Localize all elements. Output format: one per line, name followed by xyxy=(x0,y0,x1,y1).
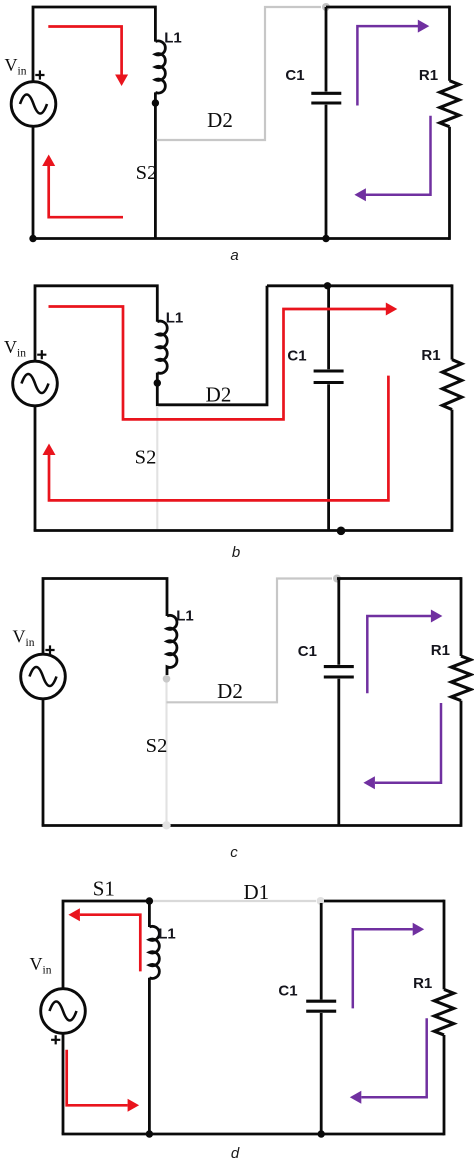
inductor L1, circuit b xyxy=(157,321,167,373)
wire: bottom rail, circuit a xyxy=(32,237,450,240)
capacitor C1 bottom lead, circuit d xyxy=(320,1013,323,1134)
node: bottom junction, circuit b xyxy=(337,527,346,536)
svg-text:S2: S2 xyxy=(135,447,157,469)
inductor L1, circuit a xyxy=(155,41,165,93)
node: L1 junction (grey), circuit c xyxy=(163,675,171,683)
current arrow: output loop bottom (purple), circuit c xyxy=(375,703,441,783)
wire: bottom rail, circuit d xyxy=(62,1133,444,1136)
wire: right rail top, circuit b xyxy=(451,284,454,359)
node: C1 bottom junction, circuit d xyxy=(318,1130,325,1137)
wire: switch S2 branch (closed, black), circuit a xyxy=(154,92,157,238)
source Vin (AC), circuit a xyxy=(11,82,56,127)
current arrow: output loop bottom (purple), circuit d xyxy=(361,1018,426,1097)
wire: top-right rail, circuit a xyxy=(326,6,450,9)
resistor R1, circuit c xyxy=(451,656,470,701)
capacitor C1 bottom lead, circuit c xyxy=(337,679,340,826)
resistor R1, circuit b xyxy=(442,360,461,410)
wire: top-left loop (Vin top to L1 top), circuit c xyxy=(43,579,167,655)
switch S2 branch (open, faint grey), circuit c xyxy=(165,681,167,824)
switch S2 branch (open, faint grey), circuit b xyxy=(156,406,158,529)
resistor R1, circuit d xyxy=(434,989,453,1035)
svg-text:c: c xyxy=(230,844,238,861)
capacitor C1 bottom lead, circuit a xyxy=(325,105,328,239)
capacitor C1 top lead, circuit d xyxy=(320,903,323,1000)
wire: right rail bottom, circuit b xyxy=(451,410,454,532)
wire: right rail bottom, circuit c xyxy=(460,701,463,827)
svg-text:C1: C1 xyxy=(278,983,297,1000)
node: bottom-left, circuit a xyxy=(29,235,36,242)
current arrow: output loop top (purple), circuit a xyxy=(357,26,418,105)
wire: L1 bottom lead, circuit d xyxy=(148,978,151,1134)
wire: top-right rail, circuit c xyxy=(337,577,461,580)
wire: bottom rail, circuit b xyxy=(34,529,452,532)
svg-text:S2: S2 xyxy=(136,162,158,184)
current arrow: output loop bottom (purple), circuit a xyxy=(365,116,430,195)
wire: right rail bottom, circuit a xyxy=(448,127,451,240)
svg-text:R1: R1 xyxy=(413,975,432,992)
capacitor C1 plates, circuit c xyxy=(324,667,354,677)
svg-text:L1: L1 xyxy=(166,310,184,327)
current arrow: input loop top (red), circuit d xyxy=(80,915,140,972)
wire: top-left loop (Vin top to L1 top), circuit a xyxy=(33,7,155,82)
svg-text:a: a xyxy=(230,247,238,264)
current arrow: input loop bottom (red), circuit d xyxy=(67,1050,128,1106)
diode D2 branch (inactive grey), circuit c xyxy=(167,579,333,703)
wire: Vin bottom lead, circuit a xyxy=(32,127,35,239)
svg-text:L1: L1 xyxy=(164,30,182,47)
wire: bottom rail, circuit c xyxy=(42,824,461,827)
svg-text:D2: D2 xyxy=(217,679,243,703)
svg-text:d: d xyxy=(231,1145,240,1161)
diode D2 branch (inactive grey), circuit a xyxy=(157,7,322,140)
wire: top-right rail, circuit d xyxy=(324,900,444,903)
wire: top-right rail, circuit b xyxy=(267,284,452,287)
wire: L1 top lead, circuit d xyxy=(148,901,151,927)
capacitor C1 top lead, circuit c xyxy=(337,579,340,665)
current arrow: input loop top (red), circuit a xyxy=(48,27,121,75)
wire: Vin bottom lead, circuit b xyxy=(34,406,37,531)
wire: diode D2 branch (conducting, black), circuit b xyxy=(157,286,267,405)
node: D1/C1 top (grey), circuit d xyxy=(317,897,325,905)
svg-text:D1: D1 xyxy=(243,880,269,904)
capacitor C1 bottom lead, circuit b xyxy=(327,384,330,530)
polarity + mark, circuit d xyxy=(51,1035,60,1044)
svg-text:R1: R1 xyxy=(431,642,450,659)
polarity + mark, circuit a xyxy=(35,70,44,79)
wire: right rail top, circuit c xyxy=(460,577,463,656)
node: L1/S2/D2 junction, circuit a xyxy=(152,99,159,106)
node: C1 bottom junction, circuit a xyxy=(322,235,329,242)
svg-text:S1: S1 xyxy=(93,877,115,901)
polarity + mark, circuit b xyxy=(37,350,46,359)
source Vin (AC), circuit d xyxy=(41,989,86,1034)
svg-text:S2: S2 xyxy=(146,735,168,757)
current arrow: output loop top (purple), circuit c xyxy=(367,616,431,693)
svg-text:C1: C1 xyxy=(298,643,317,660)
capacitor C1 plates, circuit a xyxy=(311,93,341,103)
capacitor C1 plates, circuit d xyxy=(306,1001,336,1011)
source Vin (AC), circuit c xyxy=(21,654,66,699)
polarity + mark, circuit c xyxy=(45,645,54,654)
node: output top (grey), circuit a xyxy=(322,3,330,11)
current arrow: return path (red), circuit b xyxy=(49,376,388,501)
capacitor C1 plates, circuit b xyxy=(314,371,344,383)
wire: right rail top, circuit d xyxy=(443,900,446,990)
wire: Vin bottom lead, circuit d xyxy=(62,1034,65,1135)
current arrow: output loop top (purple), circuit d xyxy=(353,929,413,1008)
node: output top junction, circuit b xyxy=(324,282,331,289)
node: L1/D2 junction, circuit b xyxy=(154,379,161,386)
svg-text:R1: R1 xyxy=(419,67,438,84)
capacitor C1 top lead, circuit a xyxy=(325,7,328,92)
node: L1 bottom junction, circuit d xyxy=(146,1130,153,1137)
svg-text:L1: L1 xyxy=(176,608,194,625)
svg-text:b: b xyxy=(232,544,240,561)
inductor L1, circuit c xyxy=(167,615,177,675)
diode D1 branch (inactive grey), circuit d xyxy=(152,900,316,902)
svg-text:R1: R1 xyxy=(421,347,440,364)
svg-text:D2: D2 xyxy=(206,383,232,407)
wire: right rail bottom, circuit d xyxy=(443,1035,446,1135)
resistor R1, circuit a xyxy=(440,81,459,127)
current arrow: input loop bottom (red), circuit a xyxy=(49,166,123,217)
inductor L1, circuit d xyxy=(149,926,159,978)
wire: switch S1 top rail (closed, black), circuit d xyxy=(63,901,149,989)
wire: top-left loop (Vin top to L1 top), circuit b xyxy=(35,286,157,362)
current arrow: charging path (red), circuit b xyxy=(49,307,387,420)
source Vin (AC), circuit b xyxy=(13,361,58,406)
svg-text:D2: D2 xyxy=(207,108,233,132)
svg-text:C1: C1 xyxy=(285,67,304,84)
wire: right rail top, circuit a xyxy=(448,6,451,81)
node: output top (grey), circuit c xyxy=(333,575,341,583)
node: S2 bottom (grey over rail), circuit c xyxy=(162,821,170,829)
svg-text:L1: L1 xyxy=(158,926,176,943)
node: S1/L1/D1 junction, circuit d xyxy=(146,897,153,904)
svg-text:C1: C1 xyxy=(287,347,306,364)
capacitor C1 top lead, circuit b xyxy=(327,286,330,370)
wire: Vin bottom lead, circuit c xyxy=(42,699,45,826)
